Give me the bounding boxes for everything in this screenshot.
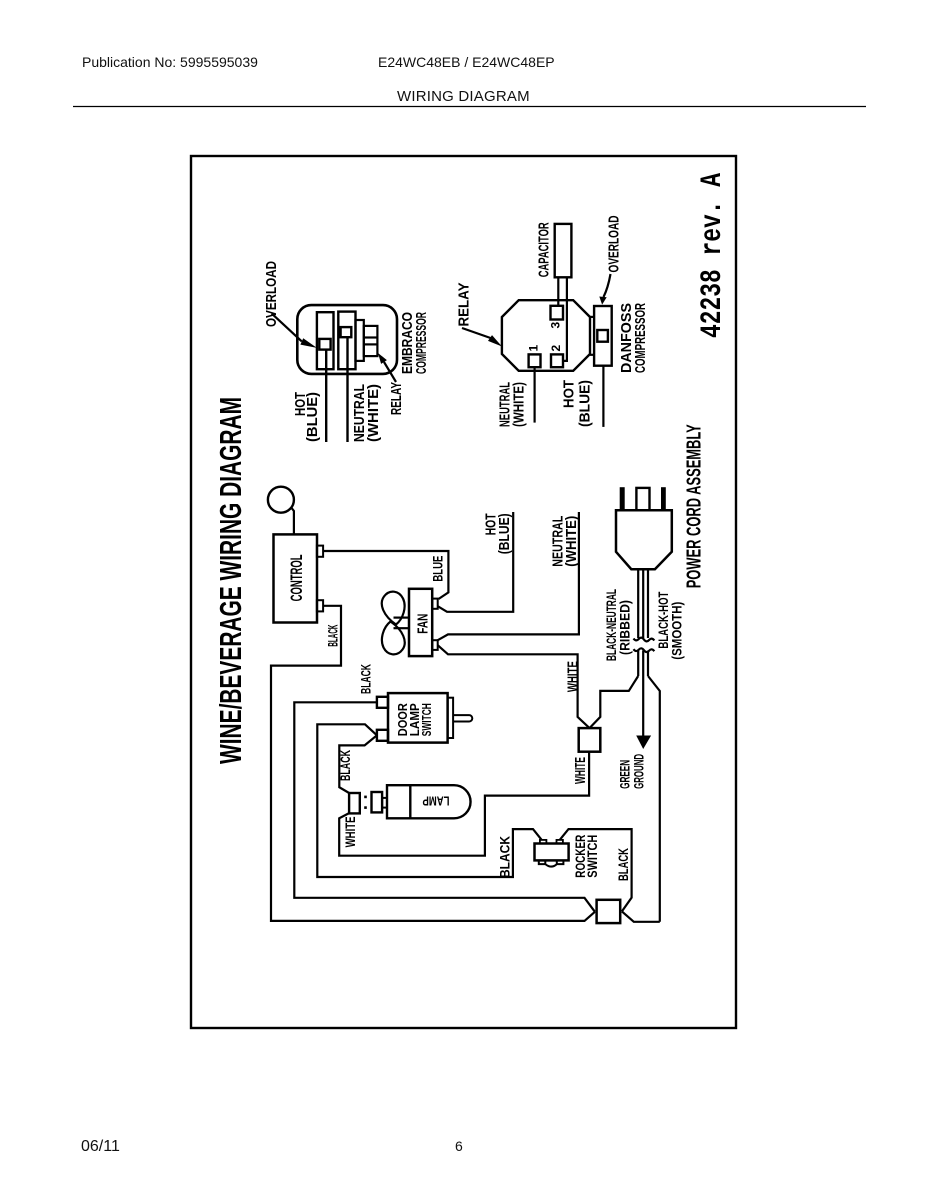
svg-text:OVERLOAD: OVERLOAD [263, 261, 280, 327]
danfoss hot wire [602, 366, 604, 427]
green ground wire [642, 676, 644, 736]
capacitor lead to terminal 2 [563, 277, 567, 361]
rocker switch feet [539, 860, 564, 866]
svg-text:BLUE: BLUE [429, 556, 445, 582]
svg-text:42238 rev. A: 42238 rev. A [696, 173, 730, 338]
svg-text:SWITCH: SWITCH [419, 703, 434, 736]
black wire door switch t2 to rocker switch [317, 724, 541, 877]
lamp terminal 2 [372, 792, 383, 812]
svg-text:BLACK: BLACK [337, 750, 353, 781]
svg-text:2: 2 [549, 345, 563, 352]
danfoss labels [456, 215, 650, 427]
embraco overload leader arrow [272, 313, 302, 341]
svg-text:1: 1 [527, 345, 541, 352]
header: publication number [82, 54, 258, 70]
svg-text:WHITE: WHITE [342, 816, 358, 847]
embraco relay leader arrow [384, 362, 396, 382]
svg-text:(BLUE): (BLUE) [496, 513, 513, 554]
svg-text:HOT: HOT [560, 380, 577, 408]
fan terminal 2 [432, 640, 438, 650]
svg-text:(WHITE): (WHITE) [365, 384, 382, 442]
danfoss compressor octagon body [502, 300, 590, 371]
capacitor body [555, 224, 572, 277]
svg-text:RELAY: RELAY [388, 382, 405, 415]
svg-text:COMPRESSOR: COMPRESSOR [413, 312, 430, 374]
svg-text:CONTROL: CONTROL [287, 554, 306, 601]
rocker switch labels [572, 835, 600, 878]
white wire from nut to lamp [339, 752, 589, 856]
embraco labels [263, 261, 430, 442]
diagram border frame [191, 156, 736, 1028]
svg-text:BLACK: BLACK [496, 836, 512, 878]
fan box [409, 589, 432, 656]
header: model numbers [378, 54, 555, 70]
svg-text:BLACK: BLACK [615, 848, 631, 881]
svg-text:3: 3 [549, 322, 563, 329]
neutral white stub wire [438, 512, 579, 640]
svg-text:(SMOOTH): (SMOOTH) [669, 602, 685, 660]
svg-text:RELAY: RELAY [456, 283, 473, 327]
green ground arrowhead [636, 736, 651, 750]
white wire nut square [579, 728, 601, 752]
control sensor capillary wire [291, 508, 294, 535]
control box [274, 534, 318, 622]
danfoss neutral wire [533, 367, 535, 422]
black-hot wire elbow into bottom square [622, 911, 660, 921]
black-neutral wire to junction square [590, 676, 639, 728]
control terminal B [317, 600, 323, 611]
header: page title [397, 88, 530, 105]
svg-text:POWER CORD ASSEMBLY: POWER CORD ASSEMBLY [684, 424, 706, 588]
danfoss overload block [594, 306, 612, 366]
door lamp switch plunger [453, 715, 472, 721]
danfoss overload leader arrow [604, 274, 611, 297]
plug prong 2 (flat) [662, 488, 665, 510]
danfoss overload mounting tab lines [590, 354, 594, 356]
cord break marks [634, 638, 655, 642]
embraco relay connector plate [356, 320, 364, 361]
embraco contact square 2 [341, 327, 352, 337]
svg-text:FAN: FAN [414, 614, 431, 634]
capacitor lead to terminal 3 [557, 277, 559, 306]
svg-text:(BLUE): (BLUE) [304, 392, 321, 442]
embraco slot 2 [338, 312, 355, 370]
danfoss terminal 3 [551, 306, 564, 320]
svg-text:WHITE: WHITE [565, 661, 582, 692]
fan terminal 1 [432, 599, 438, 609]
blue wire control to fan [323, 551, 448, 599]
title text WINE/BEVERAGE WIRING DIAGRAM [213, 173, 730, 764]
svg-text:COMPRESSOR: COMPRESSOR [632, 303, 649, 373]
embraco neutral wire [346, 337, 348, 442]
bottom junction square [597, 900, 621, 923]
embraco slot 1 [317, 312, 334, 369]
cord conductor lines segment 1 [637, 569, 639, 638]
svg-text:LAMP: LAMP [422, 794, 449, 809]
danfoss terminal labels 1 2 3 [527, 322, 564, 352]
svg-text:SWITCH: SWITCH [584, 835, 600, 878]
danfoss terminal 1 [529, 354, 541, 367]
lamp base tab [382, 798, 387, 808]
embraco relay pin block [364, 326, 378, 356]
black wire control to lower bus and junction [271, 606, 595, 921]
header rule line [73, 106, 866, 108]
lamp terminal 1 [349, 793, 360, 813]
white wire fan to junction square [438, 645, 590, 728]
plug body [616, 510, 672, 569]
embraco overload contact square 1 [319, 339, 330, 350]
svg-text:(WHITE): (WHITE) [563, 516, 580, 567]
svg-text:BLACK: BLACK [357, 664, 373, 694]
danfoss terminal 2 [551, 354, 563, 367]
black wire door switch t1 to upper bus and bottom square [294, 702, 595, 912]
door switch terminal 1 [377, 697, 388, 708]
lamp terminal dots [364, 806, 367, 809]
black wire door switch t2 to lamp [339, 735, 377, 793]
stub labels [483, 513, 582, 692]
black wire rocker pin2 to bottom square [560, 829, 632, 911]
fan blade left [382, 622, 405, 655]
danfoss overload inner square [597, 330, 608, 342]
control sensor bulb circle [268, 487, 294, 513]
svg-text:CAPACITOR: CAPACITOR [536, 222, 553, 277]
door lamp switch lip [448, 698, 454, 738]
rocker switch body [535, 844, 569, 861]
lamp base [387, 785, 410, 818]
door switch terminal 2 [377, 730, 388, 741]
svg-text:BLACK: BLACK [325, 625, 341, 647]
footer: page number [455, 1138, 463, 1154]
plug prong 1 (flat) [620, 488, 624, 510]
rocker switch pin 2 [557, 840, 563, 844]
plug ground prong [636, 488, 649, 510]
door lamp switch body [388, 693, 448, 743]
danfoss relay leader arrow [462, 328, 491, 338]
embraco compressor body [297, 305, 397, 374]
svg-text:GROUND: GROUND [630, 754, 646, 789]
footer: date [81, 1138, 120, 1156]
svg-text:(RIBBED): (RIBBED) [617, 600, 633, 655]
fan blade right [382, 592, 405, 625]
svg-text:WHITE: WHITE [572, 757, 589, 784]
fan motor shaft lines [394, 627, 410, 629]
rocker switch pin 1 [540, 840, 547, 844]
embraco hot wire [325, 350, 327, 442]
hot blue stub wire [438, 512, 514, 612]
cord conductor lines segment 2 [637, 651, 639, 677]
black-hot wire to bottom square [648, 676, 660, 922]
embraco relay pin dividers [364, 343, 378, 345]
control terminal A [317, 546, 323, 557]
door switch labels [395, 703, 434, 737]
lamp glass bulb [410, 785, 470, 818]
svg-text:(WHITE): (WHITE) [511, 382, 528, 427]
power cord labels [603, 424, 706, 789]
svg-text:(BLUE): (BLUE) [577, 380, 594, 427]
svg-text:OVERLOAD: OVERLOAD [606, 215, 623, 272]
svg-text:WINE/BEVERAGE WIRING DIAGRAM: WINE/BEVERAGE WIRING DIAGRAM [213, 397, 248, 764]
